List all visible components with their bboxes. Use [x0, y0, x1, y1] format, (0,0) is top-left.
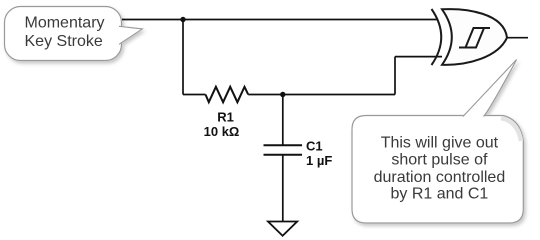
- svg-text:by R1 and C1: by R1 and C1: [390, 186, 488, 203]
- callout bubble: explanation of output pulse: [352, 60, 523, 224]
- svg-text:Momentary: Momentary: [25, 14, 105, 31]
- wire: vertical from top junction down to R1 row: [182, 20, 184, 95]
- wire: junction right toward gate lower input: [283, 94, 395, 96]
- svg-text:R1: R1: [217, 110, 234, 125]
- wire: from R1 to middle junction: [248, 94, 283, 96]
- svg-text:duration controlled: duration controlled: [374, 169, 506, 186]
- wire: gate output: [507, 37, 528, 39]
- ground: [268, 222, 297, 236]
- svg-text:10 kΩ: 10 kΩ: [204, 124, 240, 139]
- capacitor C1: [264, 145, 303, 155]
- wire: gate lower input lead: [395, 56, 442, 58]
- wire: C1 bottom plate down to ground: [282, 155, 284, 222]
- svg-text:This will give out: This will give out: [381, 134, 499, 151]
- node: junction R1 / C1 / gate lower net: [280, 92, 285, 97]
- hysteresis symbol inside U1: [459, 28, 490, 48]
- XOR gate U1 (Schmitt-trigger) body: [432, 9, 508, 65]
- resistor R1: [206, 87, 249, 102]
- wire: top net from bubble tail to gate upper input: [122, 19, 438, 21]
- svg-text:1 µF: 1 µF: [306, 153, 332, 168]
- callout bubble: Momentary Key Stroke: [5, 7, 143, 61]
- wire: vertical rise to gate lower input level: [394, 57, 396, 95]
- svg-text:Key Stroke: Key Stroke: [25, 33, 103, 50]
- wire: junction down to C1 top plate: [282, 95, 284, 146]
- wire: short lead from vertical to R1: [183, 94, 206, 96]
- svg-text:C1: C1: [306, 139, 323, 154]
- node: top junction dot: [180, 17, 185, 22]
- svg-text:short pulse of: short pulse of: [391, 152, 488, 169]
